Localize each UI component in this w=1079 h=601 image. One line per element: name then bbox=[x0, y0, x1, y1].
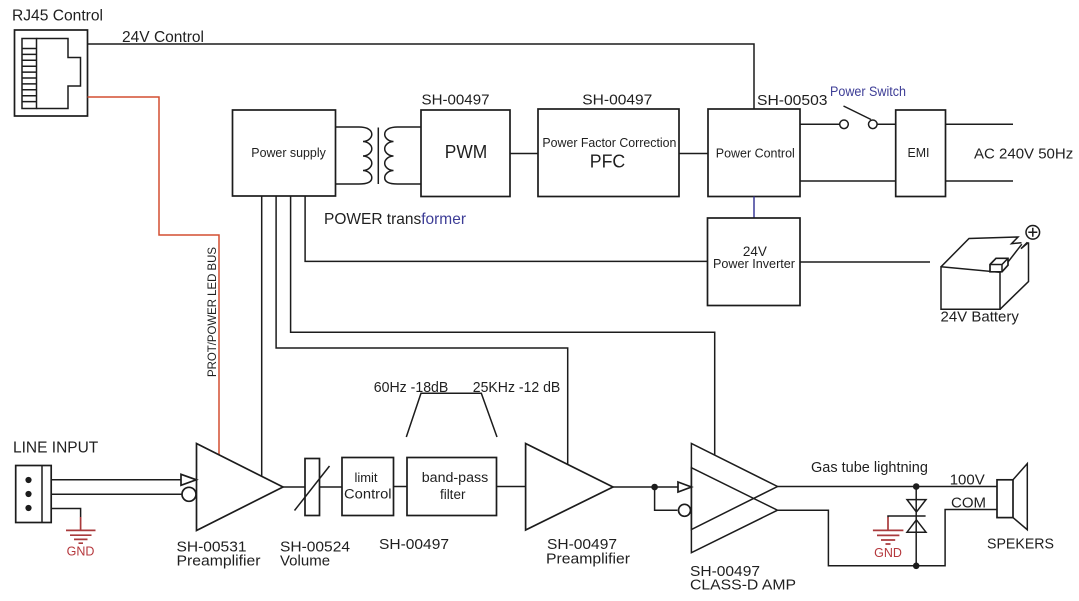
svg-text:24V Control: 24V Control bbox=[122, 29, 204, 46]
wire line input to ground bbox=[51, 509, 80, 530]
svg-text:Volume: Volume bbox=[280, 553, 330, 570]
node junction 100V bbox=[913, 483, 920, 490]
wire 24V control from RJ45 to Power Control bbox=[88, 44, 755, 109]
wire U1 output to volume bbox=[283, 486, 305, 488]
transformer T1 secondary winding bbox=[385, 127, 421, 184]
svg-text:POWER transformer: POWER transformer bbox=[324, 211, 467, 228]
svg-text:SH-00503: SH-00503 bbox=[757, 92, 828, 109]
svg-text:Power Control: Power Control bbox=[716, 146, 795, 161]
svg-text:LINE INPUT: LINE INPUT bbox=[13, 440, 99, 457]
PWM block SH-00497 bbox=[421, 110, 510, 197]
battery BT1 top face with folded corner notch bbox=[941, 237, 1029, 272]
part label SH-00524 Volume bbox=[280, 539, 350, 570]
wire PROT/POWER LED BUS (red) from RJ45 to preamplifier U1 bbox=[88, 97, 220, 455]
wire limit control to band-pass filter bbox=[394, 486, 408, 488]
svg-text:GND: GND bbox=[67, 545, 95, 559]
wire PWM to PFC bbox=[510, 153, 538, 155]
svg-text:EMI: EMI bbox=[908, 145, 930, 160]
svg-text:100V: 100V bbox=[950, 471, 985, 488]
speaker LS1 bbox=[997, 464, 1027, 530]
PFC block SH-00497 bbox=[538, 109, 679, 197]
ground symbol GND2 bbox=[873, 530, 904, 560]
gas discharge tube arrester bbox=[907, 487, 926, 566]
power supply block bbox=[233, 110, 336, 196]
svg-text:PROT/POWER LED BUS: PROT/POWER LED BUS bbox=[205, 247, 219, 377]
input arrow into U1 bbox=[181, 474, 196, 485]
wire power rail to preamplifier U4 bbox=[276, 196, 568, 465]
svg-text:COM: COM bbox=[951, 495, 986, 512]
svg-text:Power Factor Correction: Power Factor Correction bbox=[542, 136, 676, 150]
svg-text:Power Switch: Power Switch bbox=[830, 84, 906, 99]
wire EMI to AC line bbox=[946, 123, 1014, 125]
wire line input signal + bbox=[51, 479, 181, 481]
svg-text:25KHz -12 dB: 25KHz -12 dB bbox=[473, 379, 561, 396]
wire class-d output 100V bbox=[778, 486, 998, 488]
svg-text:GND: GND bbox=[874, 546, 902, 560]
wire class-d output COM bbox=[778, 510, 998, 566]
svg-text:24V Battery: 24V Battery bbox=[941, 309, 1020, 326]
svg-text:PFC: PFC bbox=[590, 151, 626, 172]
line input connector J2 bbox=[16, 466, 52, 523]
svg-text:Preamplifier: Preamplifier bbox=[546, 551, 630, 568]
limit control block bbox=[342, 458, 394, 516]
input arrow into class-d amp bbox=[678, 482, 691, 492]
RJ45 connector pin strip bbox=[22, 39, 37, 109]
preamplifier U4 SH-00497 bbox=[526, 444, 613, 531]
svg-text:filter: filter bbox=[440, 487, 466, 502]
svg-text:SH-00497: SH-00497 bbox=[379, 536, 449, 553]
svg-text:PWM: PWM bbox=[445, 142, 488, 162]
wire arrester tap to ground bbox=[888, 516, 926, 530]
svg-text:Gas tube lightning: Gas tube lightning bbox=[811, 460, 928, 476]
svg-text:SH-00497: SH-00497 bbox=[422, 92, 490, 109]
power switch S1 bbox=[840, 106, 877, 129]
wire line input signal - bbox=[51, 493, 182, 495]
inverting input bubble of class-d amp bbox=[679, 504, 691, 516]
wire U4 output to class-d amp bbox=[613, 486, 679, 488]
wire volume to limit control bbox=[320, 486, 343, 488]
wire PFC to Power Control bbox=[679, 153, 708, 155]
part label SH-00531 Preamplifier bbox=[177, 539, 261, 570]
wire EMI to AC neutral bbox=[946, 180, 1014, 182]
wire power rail to 24V power inverter bbox=[305, 196, 707, 261]
svg-text:Power Inverter: Power Inverter bbox=[713, 256, 796, 271]
svg-text:limit: limit bbox=[354, 470, 377, 485]
wire band-pass filter to preamplifier U4 bbox=[497, 486, 526, 488]
battery BT1 terminal post bbox=[990, 258, 1008, 272]
svg-text:AC 240V 50Hz: AC 240V 50Hz bbox=[974, 146, 1073, 163]
battery BT1 right face bbox=[1000, 242, 1029, 309]
band-pass response trapezoid bbox=[406, 393, 497, 437]
node junction at U4 output bbox=[651, 484, 658, 491]
ground symbol GND1 bbox=[66, 530, 96, 558]
svg-text:band-pass: band-pass bbox=[422, 470, 489, 485]
svg-text:60Hz -18dB: 60Hz -18dB bbox=[374, 379, 449, 396]
svg-text:Control: Control bbox=[344, 487, 392, 502]
battery BT1 front face bbox=[941, 267, 1000, 310]
svg-text:SH-00497: SH-00497 bbox=[582, 92, 652, 109]
wire Power Control to switch bbox=[800, 123, 840, 125]
svg-text:Preamplifier: Preamplifier bbox=[177, 553, 261, 570]
class-d amp U5 triangle B bbox=[691, 468, 777, 553]
part label SH-00497 Preamplifier bbox=[546, 536, 630, 568]
wire Power Control to EMI (lower) bbox=[800, 180, 896, 182]
wire switch to EMI bbox=[877, 123, 896, 125]
wire Power Control to inverter (blue) bbox=[753, 197, 755, 219]
svg-text:RJ45 Control: RJ45 Control bbox=[12, 8, 103, 25]
EMI filter block bbox=[896, 110, 946, 197]
wire power rail to class-d amp U5 bbox=[291, 196, 715, 455]
battery BT1 plus terminal symbol bbox=[1026, 226, 1040, 240]
preamplifier U1 SH-00531 bbox=[197, 444, 284, 531]
transformer T1 core bbox=[377, 128, 379, 185]
wire branch to class-d inverting input bbox=[655, 487, 678, 510]
inverting input bubble of U1 bbox=[182, 487, 196, 501]
svg-text:SPEKERS: SPEKERS bbox=[987, 536, 1054, 553]
wire inverter to battery bbox=[800, 261, 930, 263]
volume attenuator SH-00524 bbox=[295, 459, 330, 516]
class-d amp U5 triangle A bbox=[691, 444, 777, 530]
part label SH-00497 CLASS-D AMP bbox=[690, 563, 796, 594]
Power Control block SH-00503 bbox=[708, 109, 800, 197]
wire power rail to preamplifier U1 bbox=[261, 196, 263, 477]
RJ45 connector J1 outer body bbox=[15, 30, 88, 116]
svg-text:CLASS-D AMP: CLASS-D AMP bbox=[690, 577, 796, 594]
band-pass filter block bbox=[407, 458, 497, 516]
24V power inverter block bbox=[708, 218, 801, 306]
RJ45 connector jack outline bbox=[37, 39, 81, 109]
node junction COM bbox=[913, 563, 920, 570]
transformer T1 primary winding bbox=[336, 127, 372, 184]
svg-text:Power supply: Power supply bbox=[251, 145, 326, 160]
